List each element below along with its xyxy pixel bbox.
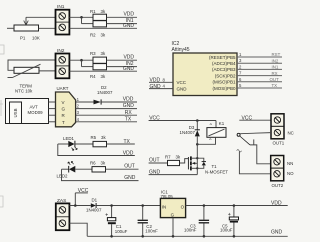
wire IC2 pin2 [237,68,282,70]
wire to IN2 net [107,66,138,68]
resistor R4 [93,64,107,70]
svg-text:100uF: 100uF [220,228,233,233]
wire IN2 to junction [69,59,93,61]
wire NC to switch [240,133,271,134]
svg-text:3k: 3k [101,32,106,37]
svg-text:VCC: VCC [78,188,89,194]
scan artifact left edge 1 [0,45,4,54]
diode D2 [94,99,102,104]
connector OUT1 [271,114,284,139]
thermistor TERM NTC 10k [8,64,41,77]
svg-text:100nF: 100nF [184,228,197,233]
node C2 bottom [141,235,144,238]
svg-text:V: V [62,100,65,105]
wire D2 to VDD [102,101,137,103]
svg-text:TX: TX [125,116,132,122]
svg-text:(RESET)PB5: (RESET)PB5 [209,55,236,60]
capacitor C1 [105,206,115,237]
wire IC2 VCC pin [149,81,173,83]
svg-text:1N4007: 1N4007 [180,130,196,135]
svg-text:OUT1: OUT1 [273,141,285,146]
wire OUT to R7 [149,162,168,164]
svg-text:GND: GND [123,23,135,29]
svg-text:R5: R5 [91,135,97,140]
wire IC2 GND pin [149,88,173,90]
svg-text:R3: R3 [90,51,96,56]
wire IC2 pin5 [237,87,282,89]
wire VCC rail to relay [149,120,216,122]
wire GND row [149,174,198,176]
svg-text:IN1: IN1 [57,4,65,10]
svg-text:GND: GND [123,103,135,109]
wire uart pin4 TX [76,121,137,123]
svg-text:100nF: 100nF [145,229,158,234]
svg-text:IN: IN [162,205,166,210]
wire IC2 pin7 [237,75,282,77]
module AVT MOD09 [6,99,49,124]
svg-text:GND: GND [150,84,162,90]
microcontroller IC2 Attiny45 body [173,53,237,96]
wire uart pin1 [76,101,94,103]
node C1 top [110,204,113,207]
svg-text:OUT: OUT [124,163,135,169]
wire GND rail [87,235,288,237]
svg-text:VDD: VDD [271,200,282,206]
wire IC2 pin6 [237,81,282,83]
node C3 top [203,204,206,207]
wire therm right [39,70,56,72]
svg-text:VDD: VDD [123,97,134,103]
wire IC2 pin3 [237,62,282,64]
svg-text:GND: GND [123,66,135,72]
svg-text:(MISO)PB1: (MISO)PB1 [212,80,236,85]
wire to IN1 net [107,23,138,25]
svg-text:(MOSI)PB0: (MOSI)PB0 [212,86,236,91]
svg-text:T: T [62,120,65,125]
connector OUT2 [271,156,284,181]
capacitor C3 [199,206,209,237]
svg-text:GND: GND [177,86,188,91]
node C3 bottom [203,235,206,238]
svg-text:RX: RX [125,110,133,116]
resistor R6 [92,167,106,172]
wire LED1 anode to VDD row [58,144,135,156]
wire therm left up-over [8,60,56,70]
svg-text:3k: 3k [176,154,181,159]
resistor R2 [93,21,107,27]
svg-text:USB: USB [13,108,18,117]
wire P1 right to IN1 [39,27,56,29]
node coil-drain junction [196,143,199,146]
svg-text:MOD09: MOD09 [28,110,44,115]
svg-text:NTC 10k: NTC 10k [15,89,33,94]
svg-text:3k: 3k [101,135,106,140]
svg-text:TX: TX [124,139,131,145]
node junction A [80,16,83,19]
svg-text:RX: RX [272,71,278,76]
capacitor C5 [228,206,239,237]
svg-text:VDD: VDD [123,55,134,61]
svg-text:IC2: IC2 [172,41,180,47]
svg-text:R2: R2 [90,32,96,37]
wire module pin G [49,108,56,110]
wire P1 wiper to IN1 [26,16,56,18]
svg-text:GND: GND [271,230,283,236]
svg-text:UART: UART [57,86,69,91]
svg-text:OUT: OUT [270,77,280,82]
svg-text:G: G [62,107,66,112]
svg-text:R4: R4 [90,74,96,79]
potentiometer P1 [14,17,39,31]
svg-text:P1: P1 [20,36,26,41]
connector UART [56,92,76,127]
switch stub tick [237,150,242,152]
wire IN2 gnd [69,70,137,72]
svg-text:IN2: IN2 [272,58,279,63]
wire uart pin2 GND [76,108,137,110]
wire to VDD net [107,59,138,61]
relay switch arm [240,136,250,145]
svg-text:G: G [171,213,175,218]
wire R7 to gate [180,159,189,163]
svg-text:O: O [181,205,185,210]
svg-text:OUT: OUT [149,157,160,163]
svg-text:(ADC3)PB3: (ADC3)PB3 [212,67,236,72]
diode D1 [91,203,96,208]
wire VCC to OUT1 [239,119,271,121]
svg-text:NO: NO [287,171,294,176]
svg-text:LED1: LED1 [63,136,75,141]
LED LED1 [58,141,77,151]
connector IN2 [56,54,70,79]
svg-text:VDD: VDD [150,78,161,84]
node C2 top [141,204,144,207]
node IC1 gnd [172,235,175,238]
wire VDD rail left [96,205,160,207]
wire stub to OUT2 NO [239,152,271,174]
svg-text:IN1: IN1 [272,65,279,70]
scan artifact left edge 2 [0,100,3,116]
wire R5 to TX [107,143,135,145]
wire module pin V [49,101,56,103]
wire switch to OUT2 NN [250,145,271,164]
wire IC2 pin1 [237,56,282,58]
wire LED2 to R6 [75,168,92,170]
svg-text:1N4007: 1N4007 [97,90,113,95]
wire LED2 cathode to GND row [62,169,139,180]
wire IC1 gnd pin [172,218,174,237]
wire LED1 to R5 [75,143,93,145]
svg-text:10K: 10K [32,36,40,41]
node C5 bottom [233,235,236,238]
transistor T1 N-MOSFET [188,144,198,174]
T1 body diode [197,158,206,168]
wire IN1 to junction [69,16,93,18]
wire uart pin3 RX [76,114,137,116]
svg-text:OUT2: OUT2 [272,183,284,188]
svg-text:3k: 3k [101,74,106,79]
svg-text:VCC: VCC [242,116,253,122]
svg-text:3k: 3k [101,9,106,14]
svg-text:100uF: 100uF [115,229,128,234]
node junction B [80,59,83,62]
svg-text:NN: NN [287,161,293,166]
wire junction down [81,60,83,66]
svg-text:NC: NC [288,130,294,135]
svg-text:K1: K1 [219,121,225,126]
wire ZAS plus to D1 [69,205,90,207]
svg-text:N-MOSFET: N-MOSFET [205,169,228,174]
wire R6 to OUT [106,168,139,170]
resistor R1 [93,14,107,20]
capacitor C2 [138,206,148,237]
wire ZAS minus down [69,223,87,236]
wire P1 left stub [7,27,14,29]
svg-text:(SCK)PB2: (SCK)PB2 [215,73,236,78]
svg-text:VCC: VCC [177,80,187,85]
node C1 bottom [110,235,113,238]
svg-text:RST: RST [272,52,281,57]
wire IN1 gnd [69,27,137,29]
relay switch fixed contact [253,139,255,145]
svg-text:R1: R1 [90,9,96,14]
diode D3 flyback [195,121,200,145]
scan artifact left edge 3 [0,196,3,207]
wire module pin R [49,114,56,116]
svg-text:3k: 3k [101,161,106,166]
LED LED2 [62,161,76,172]
wire relay top pin [215,121,217,128]
wire relay bottom pin [197,137,215,144]
svg-text:3k: 3k [101,51,106,56]
connector ZAS [56,203,70,230]
wire IC1 out rail [186,205,288,207]
IC2 internal pin names [177,55,236,92]
relay K1 coil [207,128,226,138]
svg-text:VDD: VDD [123,150,134,156]
svg-text:R6: R6 [90,161,96,166]
regulator IC1 78L05 [160,198,185,217]
resistor R5 [93,141,107,146]
svg-text:LED2: LED2 [57,174,69,179]
connector IN1 [56,10,70,35]
wire to VDD net [107,16,138,18]
svg-text:TX: TX [272,83,278,88]
svg-text:1N4007: 1N4007 [86,208,102,213]
relay pin tick marks [209,124,212,140]
node C5 top [233,204,236,207]
relay switch common contact [237,133,240,136]
svg-text:R7: R7 [165,154,171,159]
wire module pin T [49,121,56,123]
svg-text:Attiny45: Attiny45 [172,47,190,53]
svg-text:IN2: IN2 [57,48,65,54]
resistor R7 [168,160,180,165]
wire junction down [81,17,83,23]
svg-text:VDD: VDD [123,12,134,18]
svg-text:(ADC2)PB4: (ADC2)PB4 [212,61,236,66]
svg-text:D1: D1 [92,198,98,203]
svg-text:GND: GND [124,175,136,181]
net VCC stub [75,188,88,205]
node VCC junction [196,119,199,122]
resistor R3 [93,57,107,63]
node VCC-D1 junction [74,204,77,207]
